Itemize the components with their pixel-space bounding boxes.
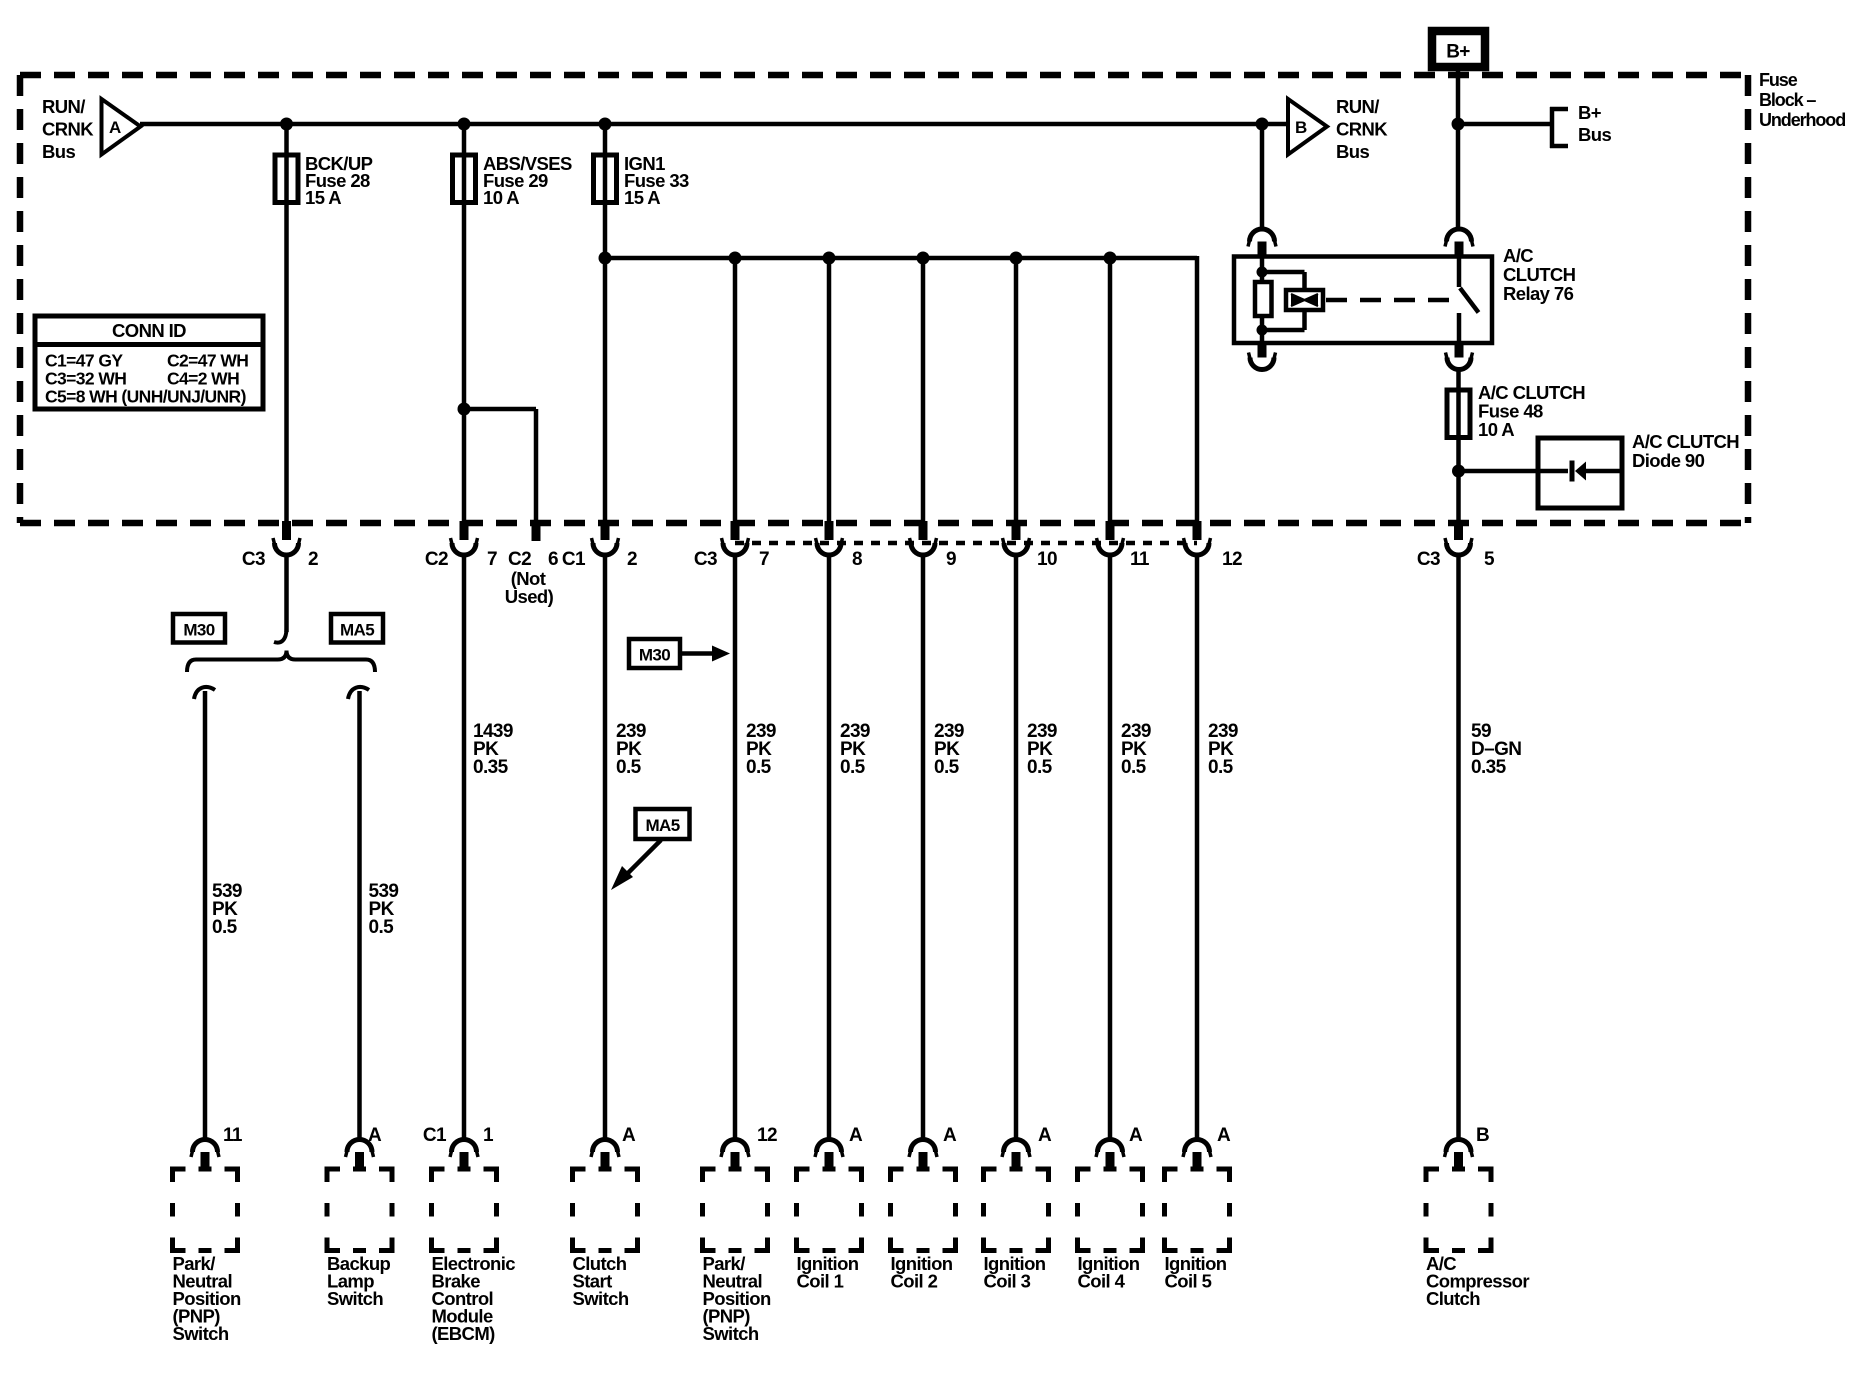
connector C3-8 bbox=[817, 543, 841, 555]
bus junction at relay coil drop bbox=[1256, 118, 1269, 131]
wire feed to border x923 bbox=[921, 258, 926, 522]
ignition feed rail bbox=[605, 256, 1197, 261]
svg-text:A: A bbox=[622, 1125, 636, 1146]
svg-text:Fuse: Fuse bbox=[1759, 70, 1798, 90]
fuse block underhood dashed border bbox=[20, 72, 1748, 79]
svg-text:MA5: MA5 bbox=[645, 816, 679, 835]
svg-text:11: 11 bbox=[223, 1125, 243, 1146]
wire feed to border x1110 bbox=[1108, 258, 1113, 522]
MA5 box bbox=[331, 614, 383, 643]
relay coil resistor bbox=[1260, 257, 1265, 282]
svg-text:MA5: MA5 bbox=[340, 621, 374, 640]
svg-text:B+: B+ bbox=[1578, 102, 1602, 123]
ignition coil 4 box bbox=[1078, 1169, 1143, 1251]
EBCM box bbox=[432, 1169, 497, 1251]
relay switch blade bbox=[1460, 288, 1479, 313]
border stub C3-11 bbox=[1106, 521, 1115, 540]
RUN/CRNK bus source triangle A bbox=[102, 99, 141, 155]
svg-text:12: 12 bbox=[1222, 549, 1242, 570]
svg-text:A: A bbox=[368, 1125, 382, 1146]
connector C3-10 bbox=[1004, 543, 1028, 555]
border stub C1-2 bbox=[601, 521, 610, 540]
border stub C3-8 bbox=[825, 521, 834, 540]
border stub C3-9 bbox=[919, 521, 928, 540]
fuse 48 A/C CLUTCH bbox=[1447, 390, 1470, 438]
wire feed to border x1016 bbox=[1014, 258, 1019, 522]
svg-text:0.35: 0.35 bbox=[1471, 757, 1507, 778]
svg-text:C3: C3 bbox=[694, 549, 717, 570]
svg-text:RUN/: RUN/ bbox=[1336, 96, 1379, 117]
svg-text:10 A: 10 A bbox=[483, 187, 519, 208]
svg-text:CONN ID: CONN ID bbox=[112, 320, 186, 341]
border stub C2-7 bbox=[460, 521, 469, 540]
wire feed to border x735 bbox=[733, 258, 738, 522]
wire bus to fuse 29 bbox=[462, 124, 467, 202]
ignition coil 3 box bbox=[984, 1169, 1049, 1251]
svg-text:1: 1 bbox=[483, 1125, 494, 1146]
stub into PNP switch 2 bbox=[731, 1152, 740, 1169]
RUN/CRNK bus destination triangle B bbox=[1288, 99, 1327, 155]
wire bus to fuse 33 bbox=[603, 124, 608, 202]
svg-text:Switch: Switch bbox=[703, 1323, 759, 1344]
M30 box bbox=[173, 614, 225, 643]
M30 reference tag bbox=[629, 639, 680, 668]
PNP switch 2 box bbox=[703, 1169, 768, 1251]
connector C3-7 bbox=[723, 543, 747, 555]
svg-text:0.5: 0.5 bbox=[1027, 757, 1053, 778]
connector at EBCM bbox=[452, 1140, 477, 1153]
svg-text:C4=2 WH: C4=2 WH bbox=[167, 369, 239, 389]
border stub C3-7 bbox=[731, 521, 740, 540]
connector at PNP switch 2 bbox=[723, 1140, 748, 1153]
svg-text:0.5: 0.5 bbox=[616, 757, 642, 778]
wire branch to C2-6 stub bbox=[464, 407, 536, 412]
MA5 arrow bbox=[626, 840, 661, 875]
relay switch contact upper bbox=[1457, 257, 1462, 288]
svg-text:2: 2 bbox=[308, 549, 318, 570]
wire C3 to coil1 bbox=[827, 555, 832, 1140]
relay switch pin stub bbox=[1455, 242, 1464, 258]
feed junction x1016 bbox=[1010, 252, 1023, 265]
wire end hook bbox=[274, 628, 287, 643]
B+ battery feed box bbox=[1428, 27, 1489, 71]
wire feed corner down coil5 bbox=[1195, 256, 1200, 522]
svg-text:Diode 90: Diode 90 bbox=[1632, 450, 1705, 471]
svg-text:C1: C1 bbox=[562, 549, 586, 570]
svg-text:0.5: 0.5 bbox=[746, 757, 772, 778]
svg-text:C3=32 WH: C3=32 WH bbox=[45, 369, 126, 389]
wire C3 to coil2 bbox=[921, 555, 926, 1140]
svg-text:Relay 76: Relay 76 bbox=[1503, 283, 1574, 304]
svg-text:C1=47 GY: C1=47 GY bbox=[45, 351, 123, 371]
relay switch pin connector bbox=[1447, 229, 1472, 241]
svg-text:0.5: 0.5 bbox=[934, 757, 960, 778]
connector at PNP switch 1 bbox=[193, 1140, 218, 1153]
relay coil pin stub bbox=[1258, 242, 1267, 258]
wire bus to relay coil pin bbox=[1260, 124, 1265, 229]
wire C3-5 to compressor clutch bbox=[1456, 555, 1461, 1140]
wire C3 to coil4 bbox=[1108, 555, 1113, 1140]
relay coil junction top bbox=[1257, 267, 1268, 278]
svg-text:Bus: Bus bbox=[1578, 124, 1611, 145]
connector C3-2 bbox=[275, 543, 299, 555]
svg-text:M30: M30 bbox=[639, 646, 670, 665]
svg-text:Clutch: Clutch bbox=[1426, 1288, 1480, 1309]
svg-text:15 A: 15 A bbox=[624, 187, 660, 208]
svg-text:Used): Used) bbox=[505, 586, 554, 607]
border stub C3-10 bbox=[1012, 521, 1021, 540]
svg-text:2: 2 bbox=[627, 549, 637, 570]
svg-text:Bus: Bus bbox=[42, 141, 75, 162]
splice brace bbox=[187, 651, 375, 673]
svg-text:A: A bbox=[849, 1125, 863, 1146]
svg-text:Switch: Switch bbox=[327, 1288, 383, 1309]
relay coil junction bottom bbox=[1257, 325, 1268, 336]
connector C3-11 bbox=[1098, 543, 1122, 555]
svg-text:Coil 3: Coil 3 bbox=[984, 1271, 1031, 1292]
ignition coil 5 box bbox=[1165, 1169, 1230, 1251]
svg-text:7: 7 bbox=[759, 549, 769, 570]
svg-text:C3: C3 bbox=[242, 549, 265, 570]
feed junction x829 bbox=[823, 252, 836, 265]
stub into clutch start switch bbox=[601, 1152, 610, 1169]
stub into ignition coil 2 bbox=[919, 1152, 928, 1169]
ignition coil 2 box bbox=[891, 1169, 956, 1251]
relay coil bracket top bbox=[1262, 270, 1305, 275]
wire bus to fuse 28 bbox=[284, 124, 289, 202]
wire relay to fuse 48 bbox=[1456, 369, 1461, 437]
connector at ignition coil 2 bbox=[911, 1140, 936, 1153]
wire C3 to coil3 bbox=[1014, 555, 1019, 1140]
svg-text:C5=8 WH (UNH/UNJ/UNR): C5=8 WH (UNH/UNJ/UNR) bbox=[45, 387, 246, 407]
junction B+ bus bbox=[1452, 118, 1465, 131]
connector at A/C compressor clutch bbox=[1446, 1140, 1471, 1153]
svg-text:10: 10 bbox=[1037, 549, 1057, 570]
svg-text:A: A bbox=[943, 1125, 957, 1146]
wire C3 to PNP-12 bbox=[733, 555, 738, 1140]
bus junction at BCK/UP fuse bbox=[280, 118, 293, 131]
M30 arrow bbox=[680, 651, 715, 656]
wire B+ junction to relay switch pin bbox=[1456, 124, 1461, 229]
border stub C3-2 bbox=[282, 521, 291, 540]
svg-text:B+: B+ bbox=[1446, 42, 1470, 63]
fuse 28 BCK/UP bbox=[275, 155, 298, 203]
wire feed to border x829 bbox=[827, 258, 832, 522]
svg-text:0.5: 0.5 bbox=[840, 757, 866, 778]
wire fuse 48 to border bbox=[1456, 438, 1461, 523]
stub into PNP switch 1 bbox=[201, 1152, 210, 1169]
connector C3-5 bbox=[1447, 543, 1471, 555]
svg-text:A: A bbox=[1217, 1125, 1231, 1146]
connector C1-2 bbox=[593, 543, 617, 555]
MA5 reference tag bbox=[636, 809, 690, 839]
svg-text:12: 12 bbox=[757, 1125, 777, 1146]
svg-text:(EBCM): (EBCM) bbox=[432, 1323, 496, 1344]
svg-text:9: 9 bbox=[946, 549, 956, 570]
relay coil symbol bbox=[1286, 290, 1323, 310]
stub into backup lamp switch bbox=[355, 1152, 364, 1169]
svg-text:C2=47 WH: C2=47 WH bbox=[167, 351, 248, 371]
relay switch contact lower bbox=[1457, 313, 1462, 343]
svg-text:0.5: 0.5 bbox=[369, 917, 395, 938]
diode 90 symbol bbox=[1538, 469, 1568, 474]
wire fuse 29 to border bbox=[462, 203, 467, 523]
wire C3 to coil5 bbox=[1195, 555, 1200, 1140]
connector at ignition coil 5 bbox=[1185, 1140, 1210, 1153]
svg-text:M30: M30 bbox=[183, 621, 214, 640]
CONN ID table bbox=[35, 316, 263, 409]
diode 90 box bbox=[1538, 438, 1622, 508]
svg-text:CRNK: CRNK bbox=[1336, 118, 1388, 139]
wire start hook right bbox=[348, 687, 369, 699]
backup lamp switch box bbox=[327, 1169, 392, 1251]
A/C compressor clutch box bbox=[1426, 1169, 1491, 1251]
svg-text:Coil 2: Coil 2 bbox=[891, 1271, 938, 1292]
svg-text:B: B bbox=[1476, 1125, 1489, 1146]
border stub C3-12 bbox=[1193, 521, 1202, 540]
RUN/CRNK bus wire bbox=[140, 122, 1288, 127]
connector C3-9 bbox=[911, 543, 935, 555]
stub into ignition coil 3 bbox=[1012, 1152, 1021, 1169]
relay coil bracket bottom bbox=[1302, 310, 1307, 330]
svg-text:Coil 5: Coil 5 bbox=[1165, 1271, 1212, 1292]
wire fuse 33 to border bbox=[603, 203, 608, 523]
svg-text:RUN/: RUN/ bbox=[42, 96, 85, 117]
wire B+ box to junction bbox=[1456, 71, 1461, 124]
svg-text:CRNK: CRNK bbox=[42, 118, 94, 139]
svg-text:5: 5 bbox=[1484, 549, 1495, 570]
stub into EBCM bbox=[460, 1152, 469, 1169]
svg-text:A/C CLUTCH: A/C CLUTCH bbox=[1632, 431, 1739, 452]
relay 76 box bbox=[1234, 257, 1492, 344]
connector at clutch start switch bbox=[593, 1140, 618, 1153]
C3 connector dashed gang line bbox=[735, 541, 1197, 546]
fuse 33 IGN1 bbox=[594, 155, 617, 203]
bus junction at ABS/VSES fuse bbox=[458, 118, 471, 131]
svg-text:C3: C3 bbox=[1417, 549, 1440, 570]
relay actuation dashed link bbox=[1326, 298, 1452, 303]
wire C2-7 to EBCM bbox=[462, 555, 467, 1140]
svg-text:A: A bbox=[109, 118, 121, 137]
connector C2-7 bbox=[452, 543, 476, 555]
svg-text:CLUTCH: CLUTCH bbox=[1503, 264, 1576, 285]
feed junction x1110 bbox=[1104, 252, 1117, 265]
wire to PNP switch bbox=[203, 691, 208, 1140]
svg-text:C2: C2 bbox=[425, 549, 448, 570]
wire fuse 28 to border bbox=[284, 203, 289, 523]
svg-text:6: 6 bbox=[548, 549, 558, 570]
svg-text:C1: C1 bbox=[423, 1125, 447, 1146]
svg-text:B: B bbox=[1295, 118, 1307, 137]
wire start hook left bbox=[194, 687, 215, 699]
svg-text:11: 11 bbox=[1130, 549, 1150, 570]
relay coil bottom stub bbox=[1258, 343, 1267, 358]
stub into ignition coil 5 bbox=[1193, 1152, 1202, 1169]
junction diode tap bbox=[1452, 465, 1465, 478]
feed junction x735 bbox=[729, 252, 742, 265]
svg-text:0.5: 0.5 bbox=[212, 917, 238, 938]
border stub C3-5 bbox=[1454, 521, 1463, 540]
wire to diode box bbox=[1459, 469, 1539, 474]
stub into ignition coil 1 bbox=[825, 1152, 834, 1169]
svg-text:15 A: 15 A bbox=[305, 187, 341, 208]
relay coil bottom connector bbox=[1250, 358, 1274, 370]
fuse 29 ABS/VSES bbox=[453, 155, 476, 203]
wire to backup lamp switch bbox=[357, 691, 362, 1140]
svg-text:Switch: Switch bbox=[173, 1323, 229, 1344]
wire junction to B+ Bus tap bbox=[1458, 122, 1551, 127]
svg-text:Underhood: Underhood bbox=[1759, 110, 1845, 130]
connector C3-12 bbox=[1185, 543, 1209, 555]
svg-text:Block –: Block – bbox=[1759, 90, 1816, 110]
junction ABS branch bbox=[458, 403, 471, 416]
relay switch bottom stub bbox=[1455, 343, 1464, 358]
relay switch bottom connector bbox=[1447, 358, 1471, 370]
wire C1-2 to clutch start switch bbox=[603, 555, 608, 1140]
relay coil pin connector bbox=[1250, 229, 1275, 242]
svg-text:Switch: Switch bbox=[573, 1288, 629, 1309]
svg-text:0.5: 0.5 bbox=[1208, 757, 1234, 778]
connector at ignition coil 4 bbox=[1098, 1140, 1123, 1153]
PNP switch 1 box bbox=[173, 1169, 238, 1251]
bus junction at IGN1 fuse bbox=[599, 118, 612, 131]
svg-text:Coil 1: Coil 1 bbox=[797, 1271, 844, 1292]
svg-text:Coil 4: Coil 4 bbox=[1078, 1271, 1126, 1292]
C2-6 unused stub bbox=[532, 521, 541, 541]
stub into A/C compressor clutch bbox=[1454, 1152, 1463, 1169]
svg-text:0.5: 0.5 bbox=[1121, 757, 1147, 778]
connector at ignition coil 3 bbox=[1004, 1140, 1029, 1153]
wire C3-2 down bbox=[284, 555, 289, 632]
ignition coil 1 box bbox=[797, 1169, 862, 1251]
clutch start switch box bbox=[573, 1169, 638, 1251]
svg-text:8: 8 bbox=[852, 549, 862, 570]
svg-text:Bus: Bus bbox=[1336, 141, 1369, 162]
svg-text:C2: C2 bbox=[508, 549, 531, 570]
svg-text:A: A bbox=[1129, 1125, 1143, 1146]
stub into ignition coil 4 bbox=[1106, 1152, 1115, 1169]
svg-text:10 A: 10 A bbox=[1478, 419, 1514, 440]
connector at backup lamp switch bbox=[347, 1140, 372, 1153]
B+ Bus bracket symbol bbox=[1550, 107, 1555, 148]
connector at ignition coil 1 bbox=[817, 1140, 842, 1153]
svg-text:A: A bbox=[1038, 1125, 1052, 1146]
svg-text:7: 7 bbox=[487, 549, 497, 570]
svg-text:A/C: A/C bbox=[1503, 245, 1533, 266]
feed junction at IGN1 drop bbox=[599, 252, 612, 265]
svg-text:0.35: 0.35 bbox=[473, 757, 509, 778]
feed junction x923 bbox=[917, 252, 930, 265]
